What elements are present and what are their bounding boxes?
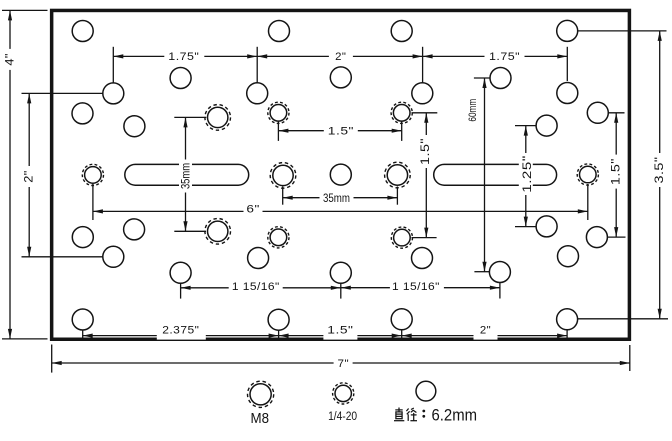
hole I2 dia 6.2mm — [268, 309, 289, 330]
svg-text:60mm: 60mm — [467, 99, 479, 122]
legend 1/4-20 symbol — [333, 383, 354, 404]
dimension 35mm vertical — [179, 117, 192, 231]
svg-text:7": 7" — [338, 358, 350, 370]
extension line below H1 — [180, 284, 182, 299]
dimension 60mm vertical — [467, 78, 487, 272]
tick right 7in — [629, 345, 631, 371]
tick left 7in — [51, 345, 53, 373]
svg-text:2": 2" — [480, 325, 491, 337]
extension line y=112.8 at Q2 right — [412, 112, 438, 114]
hole C4 dia 6.2mm — [557, 83, 578, 104]
1/4-20 hole Q4 — [577, 164, 598, 185]
legend label M8 — [251, 410, 270, 427]
svg-text:1 15/16": 1 15/16" — [232, 281, 280, 293]
hole H3 dia 6.2mm — [489, 262, 510, 283]
svg-text:6.2mm: 6.2mm — [432, 406, 478, 425]
hole G1 dia 6.2mm — [103, 246, 124, 267]
tick below I2 — [278, 330, 280, 341]
hole I3 dia 6.2mm — [391, 309, 412, 330]
dimension 1.75in top-left — [113, 50, 257, 63]
dimension 2in bottom — [402, 323, 567, 340]
hole H1 dia 6.2mm — [170, 262, 191, 283]
hole D3 dia 6.2mm — [536, 115, 557, 136]
hole C3 dia 6.2mm — [412, 83, 433, 104]
dimension 2in left — [22, 93, 36, 256]
svg-text:1 15/16": 1 15/16" — [392, 281, 440, 293]
svg-text:1.25": 1.25" — [520, 155, 534, 193]
extension line below H3 — [499, 283, 501, 299]
extension line y=318.8 right — [578, 318, 668, 320]
extension line y=256.8 left — [22, 256, 103, 258]
hole D4 dia 6.2mm — [587, 102, 608, 123]
1/4-20 hole Q1 — [268, 102, 289, 123]
svg-text:35mm: 35mm — [180, 163, 192, 189]
legend label dia 6.2mm — [394, 406, 477, 425]
svg-text:1.75": 1.75" — [168, 51, 199, 63]
extension line below Q2 — [401, 121, 403, 141]
svg-text:2": 2" — [335, 51, 346, 63]
extension line y=231.3 at M4 — [174, 230, 206, 232]
slot left — [125, 164, 249, 185]
hole B3 dia 6.2mm — [490, 68, 511, 89]
dimension 1 15/16in right — [341, 280, 500, 293]
extension line x=257.2 — [256, 47, 258, 84]
dimension 4in left overall — [3, 10, 17, 339]
extension line below Q4 — [587, 184, 589, 220]
extension line y=226.6 at F3 left — [515, 226, 536, 228]
extension line x=422.6 — [422, 47, 424, 84]
svg-text:1.75": 1.75" — [489, 51, 520, 63]
extension line below Q3 — [92, 184, 94, 220]
extension line y=112.8 right inner — [608, 112, 624, 114]
extension line top-left corner — [2, 9, 48, 11]
1/4-20 hole Q6 — [391, 227, 412, 248]
slot right — [434, 164, 557, 185]
hole A4 dia 6.2mm — [557, 20, 578, 41]
hole D2 dia 6.2mm — [124, 116, 145, 137]
M8 hole M1 — [205, 105, 231, 131]
hole C1 dia 6.2mm — [103, 83, 124, 104]
extension line x=113.3 — [112, 47, 114, 84]
extension line y=237.1 right inner — [608, 236, 626, 238]
extension line y=117.4 at M1 — [174, 116, 206, 118]
extension line y=93.4 left — [22, 92, 103, 94]
dimension 1.5in vertical center-right — [418, 113, 433, 238]
extension line y=271.7 at H3 left — [474, 271, 490, 273]
svg-text:1/4-20: 1/4-20 — [328, 411, 357, 423]
svg-text:2.375": 2.375" — [162, 325, 199, 337]
hole I1 dia 6.2mm — [72, 309, 93, 330]
svg-text:2": 2" — [22, 170, 36, 183]
hole I4 dia 6.2mm — [557, 309, 578, 330]
dimension 1.5in right — [609, 113, 624, 237]
hole H2 dia 6.2mm — [330, 262, 351, 283]
dimension 3.5in right overall — [652, 31, 667, 319]
svg-text:6": 6" — [246, 204, 259, 216]
tick below I1 — [82, 330, 84, 338]
dimension 1 15/16in left — [181, 280, 341, 293]
legend label 1/4-20 — [328, 411, 357, 423]
dimension 1.75in top-right — [423, 50, 568, 63]
legend plain hole symbol — [416, 381, 436, 401]
extension line below M2 — [282, 187, 284, 205]
plate outline 7in x 4in — [52, 10, 630, 339]
hole G2 dia 6.2mm — [248, 248, 269, 269]
extension line below Q1 — [277, 121, 279, 141]
svg-text:35mm: 35mm — [323, 193, 350, 205]
svg-text:1.5": 1.5" — [327, 325, 353, 337]
dimension 6in horizontal — [93, 204, 588, 217]
extension line x=567.3 — [566, 47, 568, 81]
hole F4 dia 6.2mm — [586, 227, 607, 248]
svg-text:M8: M8 — [251, 410, 270, 427]
hole A2 dia 6.2mm — [269, 21, 290, 42]
extension line y=125.6 at D3 left — [515, 125, 536, 127]
svg-text:1.5": 1.5" — [418, 138, 432, 165]
hole B1 dia 6.2mm — [170, 68, 191, 89]
tick below I3 — [401, 330, 403, 338]
hole D1 dia 6.2mm — [72, 103, 93, 124]
dimension 1.25in vertical — [519, 126, 534, 227]
hole G4 dia 6.2mm — [558, 246, 579, 267]
hole C2 dia 6.2mm — [247, 83, 268, 104]
svg-text:3.5": 3.5" — [652, 157, 666, 184]
svg-text:4": 4" — [3, 53, 17, 66]
1/4-20 hole Q5 — [268, 227, 289, 248]
M8 hole M3 — [385, 162, 411, 188]
hole A3 dia 6.2mm — [391, 21, 412, 42]
dimension 1.5in middle horizontal — [278, 124, 401, 137]
hole E1 center dia 6.2mm — [330, 164, 351, 185]
dimension 2.375in bottom — [83, 323, 279, 340]
dimension 7in overall — [52, 357, 630, 370]
extension line y=78 at B3 left — [474, 77, 490, 79]
hole G3 dia 6.2mm — [412, 248, 433, 269]
hole B2 dia 6.2mm — [330, 67, 351, 88]
svg-text:1.5": 1.5" — [328, 125, 354, 137]
tick below I4 — [566, 330, 568, 338]
1/4-20 hole Q2 — [391, 102, 412, 123]
svg-text:1.5": 1.5" — [609, 158, 623, 185]
hole F2 dia 6.2mm — [124, 219, 145, 240]
hole F1 dia 6.2mm — [72, 227, 93, 248]
dimension 2in top-middle — [257, 50, 422, 63]
M8 hole M4 — [205, 219, 231, 245]
extension line y=237.6 at Q6 right — [412, 237, 437, 239]
hole A1 dia 6.2mm — [72, 21, 93, 42]
legend M8 symbol — [248, 381, 274, 407]
extension line bottom-left corner — [2, 338, 48, 340]
extension line y=30.9 right — [578, 30, 667, 32]
extension line below M3 — [396, 187, 398, 205]
M8 hole M2 — [270, 163, 296, 189]
hole F3 dia 6.2mm — [536, 216, 557, 237]
1/4-20 hole Q3 — [82, 164, 103, 185]
dimension 1.5in bottom — [279, 323, 402, 340]
extension line below H2 — [340, 284, 342, 299]
dimension 35mm horizontal — [283, 192, 398, 205]
